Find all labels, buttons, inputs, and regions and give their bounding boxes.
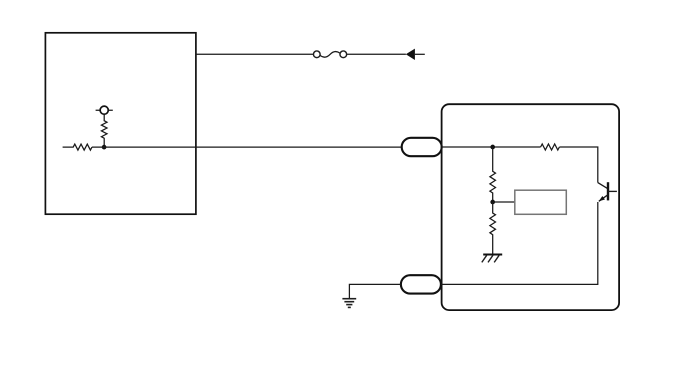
transistor Q1 — [598, 182, 617, 201]
resistor R4 (upper vertical, right box) — [490, 147, 496, 202]
wire (pin P2 to earth ground) — [349, 284, 401, 298]
control unit U1 (grey rectangle) — [515, 190, 567, 214]
fuse F1 — [313, 51, 346, 58]
left box (control unit) — [45, 33, 196, 214]
resistor R1 (vertical, left box) — [101, 114, 107, 147]
node B (junction dot) — [490, 145, 495, 150]
resistor R2 (horizontal, left box) — [63, 144, 92, 150]
terminal circle (sensor symbol) — [96, 106, 113, 114]
arrow (to battery, off-page) — [406, 49, 425, 60]
wire (node C to control unit U1) — [493, 201, 515, 203]
wire emitter (down and left to pin P2) — [441, 202, 598, 284]
wire top (left box to fuse) — [196, 53, 314, 55]
wire (pin P1 into module to R3) — [442, 146, 541, 148]
resistor R5 (lower vertical, right box) — [490, 202, 496, 255]
node C (junction dot) — [490, 200, 495, 205]
right box (module, rounded) — [442, 104, 619, 310]
connector pin P1 (top oval) — [402, 138, 442, 156]
connector pin P2 (bottom oval) — [401, 275, 441, 293]
earth ground — [342, 299, 356, 308]
node A (junction dot) — [102, 145, 107, 150]
chassis ground (right box) — [482, 255, 502, 263]
resistor R3 (horizontal, right box) — [541, 144, 560, 150]
wire (R3 to collector corner) — [559, 147, 597, 183]
wire main signal (node A to connector pin) — [92, 146, 402, 148]
wire (fuse to arrow) — [347, 53, 406, 55]
